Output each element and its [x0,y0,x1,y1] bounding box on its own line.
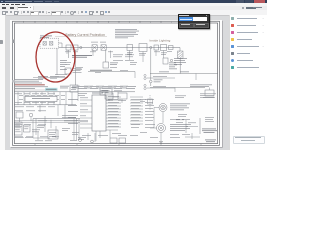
extra verticals mid [67,50,164,62]
svg-text:3: 3 [129,22,130,24]
label dome lamp [170,124,191,131]
relay K1 [103,62,109,68]
switch S2 dashed [148,95,153,110]
sheet number text [205,140,216,143]
annotation ellipse (red markup) [36,32,75,82]
relay box K4 [48,130,58,139]
wire to map lamp [154,107,159,109]
bottom mid extra wires [38,92,122,140]
wires right mid [154,74,196,129]
title block rule [185,136,200,138]
fuse F3 [66,45,71,50]
panel row 6 [231,52,234,55]
body control module box [15,122,23,135]
svg-text:7: 7 [45,22,46,24]
fuse F8 [154,45,159,50]
bus 2 wire [14,91,135,93]
wires bottom left [20,105,66,128]
terminal block T1 [110,138,117,143]
wire labels row above bus2 [60,86,128,88]
inline connector block [70,85,78,92]
relay K2 [105,93,113,99]
smart junction box SJB [92,95,106,131]
bus 4 wire [33,118,80,120]
wire SBB37 [150,73,218,75]
fuse F9 [161,45,167,51]
fusible link FL1 (hatched) [178,51,184,59]
label SJB [92,92,103,95]
panel row 8 [231,66,234,69]
wire drop from FL1 [179,59,181,74]
wires to dome lamp [150,112,163,140]
panel row 7 [231,59,234,62]
long feed wires [14,121,88,123]
fuse block F11 [100,88,112,95]
label wire W1 [153,75,167,78]
panel row 1 [231,17,234,20]
title block text [202,129,217,133]
svg-text:6: 6 [66,22,67,24]
extra wire labels mid-left [65,62,137,73]
zone ticks top [35,21,201,23]
highlight annotation (cyan) [45,88,58,91]
connector C7 [24,125,31,132]
wire run W1 [147,77,176,79]
bottom-left extra label rows [15,124,52,141]
fuse F6 [101,45,106,50]
label box K4 [37,126,45,128]
labels right of bus4 [62,115,78,122]
small labels above title block [205,117,214,122]
panel row 5 [231,45,234,48]
wire labels between buses [19,95,65,100]
label wire W2 [153,85,166,88]
connector C8 [79,139,82,142]
menu bar [0,3,267,6]
tab row [0,6,267,11]
junction block J1 [65,68,82,74]
label switch S1 [174,58,187,65]
SJB left pin labels [68,99,78,124]
SJB pin rows lower [80,128,118,130]
labels below SJB [78,137,86,140]
svg-text:2: 2 [150,22,151,24]
SJB pins left [80,100,92,124]
svg-text:1: 1 [171,22,172,24]
right pin column labels [131,99,141,121]
left column extra labels [15,94,55,112]
label relay K1 [110,63,118,66]
wire drop node A [68,50,70,58]
labels above rule [55,74,67,76]
fuse F7 [127,45,133,51]
connector C6 [29,113,33,117]
connector C1 [80,46,82,48]
fuse F10 [169,46,174,50]
title bar [0,0,267,3]
connector C3 [170,59,172,61]
right pin column block [130,97,143,124]
panel row 3 [231,31,234,34]
popup dialog [178,14,211,30]
labels above SJB [78,91,126,101]
SJB pin labels [108,96,119,127]
connector C5 [16,112,23,118]
dome lamp DL2 [157,124,166,133]
wires below SJB [96,131,100,141]
fuse F2 [50,42,53,46]
labels row mid page [78,86,136,89]
label wire SBB37 [159,71,189,74]
L-route wires [33,119,79,141]
terminal block T2 [119,138,126,143]
svg-text:Inside Lighting: Inside Lighting [150,39,171,43]
high current BJB box [40,38,59,48]
wire drop node C [150,49,152,80]
svg-text:5: 5 [87,22,88,24]
interior fuse panel box [25,96,57,101]
wire drop to diode module [209,88,211,91]
label MEGAFUSE [72,55,92,58]
svg-text:8: 8 [23,22,24,24]
svg-text:4: 4 [108,22,109,24]
connector C4 pigtail [150,80,153,86]
relay K3 [118,93,127,99]
wire drop node D [179,48,181,52]
label column left of wire [60,60,67,70]
fuse F5 [92,45,97,50]
wire megafuse drop [75,75,77,85]
title block divider [199,118,201,134]
fuse F4 [73,45,78,50]
wire drop node B [75,50,77,75]
left nav strip [0,15,6,150]
label rows upper mid [113,55,134,61]
zone letter marker left B [13,80,15,83]
labels below BJB [38,76,59,79]
map lamp DL1 [159,104,167,112]
labels mid right of lamps [170,114,190,138]
junction box B1 [139,44,147,52]
right tools panel [229,15,269,150]
more notes [15,86,48,88]
connector C9 [91,140,94,143]
wire from BJB down [56,48,58,75]
bottom center wires to frame [88,130,110,142]
trunk wire with label [88,70,135,78]
border frame inner [14,23,217,144]
label connector C4 [154,80,163,83]
panel row 4 [231,38,234,41]
SJB left label column [80,98,88,123]
panel bottom blurb [233,136,265,145]
fuse F1 [43,42,46,46]
switch S1 [163,58,168,64]
SJB pins right [106,97,121,127]
zone ticks bottom [35,144,201,146]
notes rule top-left [33,77,68,79]
label fusible link [169,63,177,70]
wire to lamps [150,87,205,89]
connector C2 [150,46,152,48]
ground G401 [159,140,163,143]
notes rule bottom [14,89,57,91]
top right text block [190,85,212,88]
wire to relay K1 [105,51,107,63]
junction labels right [175,94,216,98]
bus 3 wire [14,104,76,106]
zone numbers top [23,22,172,24]
border frame outer [13,21,220,145]
labels near title block [176,120,196,124]
label map lamp [170,104,190,111]
vertical wires between buses [18,92,72,105]
wire: main battery bus [59,47,181,49]
panel row 2 [231,24,234,27]
notes text block [15,79,43,83]
extra pin labels right column 2 [131,99,155,128]
diode module D1 [205,90,214,96]
high current BJB label [40,36,52,38]
connector stack C10 [144,74,146,89]
toolbar [0,10,267,17]
document page [10,20,222,147]
note text block [115,29,139,38]
label switch S2 [140,99,146,102]
wires near title block [186,120,198,139]
wire run W2 [147,87,176,89]
wire from BJB to bus [59,42,63,44]
labels under bus fuses [65,51,172,55]
bottom extra labels [15,128,158,138]
label diode module [203,96,214,99]
bottom left labels [38,121,47,126]
zone letter marker left [13,40,15,44]
bottom center labels [70,133,121,141]
section header: Current Protection [55,33,107,37]
red note text [15,83,45,86]
